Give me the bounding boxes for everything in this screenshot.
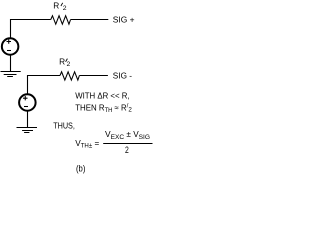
resistor R1 (R/2, top): [51, 16, 71, 25]
value label R/2 (lower resistor): fraction slash: [66, 59, 68, 62]
svg-text:2: 2: [63, 5, 67, 12]
wire: resistor R1 to SIG+ terminal: [71, 19, 109, 21]
wire: resistor R2 to SIG- terminal: [79, 75, 108, 77]
voltage source V1 (circuit 1): [2, 38, 19, 55]
ground 1: [1, 72, 21, 77]
svg-text:THUS,: THUS,: [53, 120, 75, 130]
V1 plus polarity mark: [7, 39, 12, 44]
svg-text:SIG +: SIG +: [113, 15, 135, 24]
V1 minus polarity mark: [7, 50, 11, 52]
svg-text:2: 2: [67, 61, 71, 68]
svg-text:SIG -: SIG -: [113, 71, 133, 80]
svg-text:(b): (b): [76, 164, 85, 174]
svg-text:THEN RTH ≈ R/2: THEN RTH ≈ R/2: [75, 103, 132, 114]
V2 plus polarity mark: [23, 96, 28, 101]
svg-text:R: R: [59, 56, 65, 66]
voltage source V2 (circuit 2): [19, 94, 35, 111]
svg-text:VEXC ± VSIG: VEXC ± VSIG: [105, 129, 150, 141]
ground 2: [17, 128, 38, 133]
V2 minus polarity mark: [24, 106, 28, 108]
resistor R2 (R/2, lower): [60, 72, 79, 80]
wire: top-left corner, vertical from V1 up and horizontal to resistor R1: [11, 20, 51, 38]
wire: V2 to ground 2: [27, 111, 29, 127]
wire: corner, vertical from V2 up and horizontal to resistor R2: [28, 76, 61, 95]
svg-text:2: 2: [125, 145, 129, 155]
svg-text:R: R: [53, 0, 59, 10]
svg-text:VTH± =: VTH± =: [75, 138, 99, 150]
wire: V1 to ground 1: [10, 55, 12, 71]
equation fraction bar: [103, 143, 152, 145]
value label R/2 (top resistor): fraction slash: [61, 3, 63, 6]
svg-text:WITH ΔR << R,: WITH ΔR << R,: [75, 91, 129, 101]
